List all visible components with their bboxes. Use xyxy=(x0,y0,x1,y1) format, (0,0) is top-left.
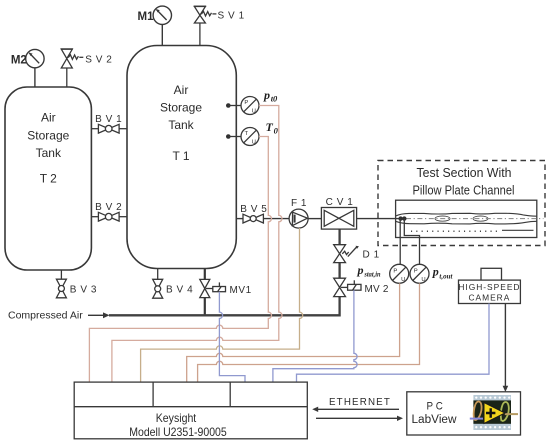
svg-text:Tank: Tank xyxy=(168,118,194,132)
svg-text:Keysight: Keysight xyxy=(156,411,197,425)
svg-text:p: p xyxy=(357,263,364,277)
svg-text:P: P xyxy=(393,268,397,274)
svg-text:D 1: D 1 xyxy=(363,249,380,260)
svg-text:S V 2: S V 2 xyxy=(85,55,112,66)
svg-text:ETHERNET: ETHERNET xyxy=(329,397,391,408)
svg-text:Compressed Air: Compressed Air xyxy=(8,310,83,322)
svg-text:U: U xyxy=(252,140,256,146)
svg-text:P: P xyxy=(244,100,248,106)
svg-text:U: U xyxy=(421,277,425,283)
svg-text:Air: Air xyxy=(41,111,56,125)
svg-text:T 1: T 1 xyxy=(172,149,189,163)
svg-text:Storage: Storage xyxy=(27,129,69,143)
svg-text:PC: PC xyxy=(427,401,446,413)
svg-text:S V 1: S V 1 xyxy=(218,11,245,22)
svg-text:T 2: T 2 xyxy=(40,172,57,186)
svg-text:P: P xyxy=(414,268,418,274)
svg-text:Tank: Tank xyxy=(36,146,62,160)
svg-text:Air: Air xyxy=(174,83,189,97)
svg-text:LabView: LabView xyxy=(412,414,458,426)
svg-text:CAMERA: CAMERA xyxy=(468,293,510,303)
svg-text:t,out: t,out xyxy=(439,271,453,280)
svg-text:B V 3: B V 3 xyxy=(70,285,97,296)
svg-text:MV 2: MV 2 xyxy=(365,284,389,295)
svg-text:B V 4: B V 4 xyxy=(166,285,193,296)
svg-text:stat,in: stat,in xyxy=(364,269,381,278)
svg-text:M1: M1 xyxy=(138,11,155,23)
svg-text:HIGH-SPEED: HIGH-SPEED xyxy=(458,282,520,292)
svg-text:MV1: MV1 xyxy=(230,285,252,296)
svg-text:p: p xyxy=(263,88,270,102)
svg-text:Pillow Plate Channel: Pillow Plate Channel xyxy=(413,183,515,198)
svg-text:U: U xyxy=(252,109,256,115)
svg-text:Modell U2351-90005: Modell U2351-90005 xyxy=(129,425,227,439)
svg-text:F 1: F 1 xyxy=(291,198,307,209)
svg-text:T: T xyxy=(266,120,274,134)
svg-text:0: 0 xyxy=(274,126,279,136)
svg-text:M2: M2 xyxy=(11,55,27,67)
svg-text:C V 1: C V 1 xyxy=(326,197,354,208)
svg-text:T: T xyxy=(244,131,248,137)
svg-text:B V 1: B V 1 xyxy=(95,114,122,125)
svg-text:U: U xyxy=(401,277,405,283)
svg-text:t0: t0 xyxy=(271,94,278,104)
svg-text:Test Section With: Test Section With xyxy=(417,165,512,180)
svg-text:Storage: Storage xyxy=(160,101,202,115)
svg-text:B V 2: B V 2 xyxy=(95,202,122,213)
svg-text:B V 5: B V 5 xyxy=(240,204,267,215)
svg-text:p: p xyxy=(432,265,439,279)
